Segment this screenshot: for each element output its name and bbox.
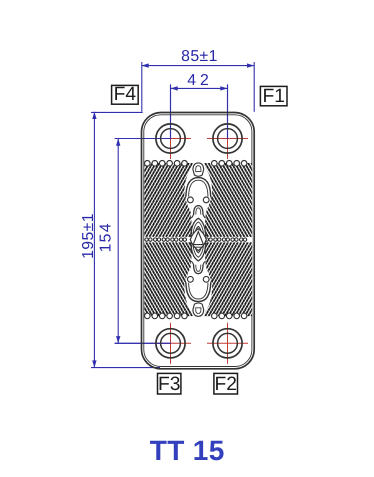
turnaround loop row [145, 161, 247, 167]
label F1 [260, 86, 287, 107]
svg-text:154: 154 [97, 222, 114, 252]
wire blue extension over top-left port [115, 138, 171, 140]
axis nested chevrons [191, 218, 206, 239]
svg-text:F1: F1 [262, 86, 285, 107]
axis bump pair [188, 197, 194, 203]
middle loop row [144, 237, 252, 242]
svg-text:F2: F2 [214, 374, 237, 395]
center diamond motif [190, 229, 206, 251]
plate outer outline [142, 113, 255, 369]
port circle F2 bottom-right [213, 329, 242, 358]
wire blue extension over bottom-left port [115, 342, 171, 344]
dimension 42 [171, 72, 228, 139]
axis big arch [186, 178, 211, 197]
plate inner outline [144, 115, 252, 367]
crosshair bottom-right port [207, 323, 248, 364]
label F3 [158, 373, 181, 395]
dimension 85±1 [142, 48, 255, 112]
dimension 154 [97, 139, 170, 344]
chevron corrugation pattern [100, 160, 340, 320]
port circle F3 bottom-left [156, 329, 185, 358]
dimension 195±1 [80, 112, 160, 368]
wire blue extension over top-right port [227, 84, 229, 139]
crosshair bottom-left port [150, 323, 191, 364]
svg-text:195±1: 195±1 [80, 213, 97, 259]
label F2 [214, 373, 238, 395]
label F4 [112, 84, 139, 105]
port circle F4 top-left [156, 124, 185, 153]
port circle F1 top-right [213, 124, 242, 153]
axis shield motif [193, 163, 204, 176]
svg-text:F4: F4 [114, 84, 137, 105]
svg-text:42: 42 [187, 72, 213, 89]
crosshair top-left port [150, 118, 191, 159]
svg-text:TT 15: TT 15 [150, 435, 225, 466]
svg-text:85±1: 85±1 [181, 48, 218, 65]
axis hairpin [194, 206, 203, 215]
svg-text:F3: F3 [158, 374, 181, 395]
crosshair top-right port [207, 118, 248, 159]
